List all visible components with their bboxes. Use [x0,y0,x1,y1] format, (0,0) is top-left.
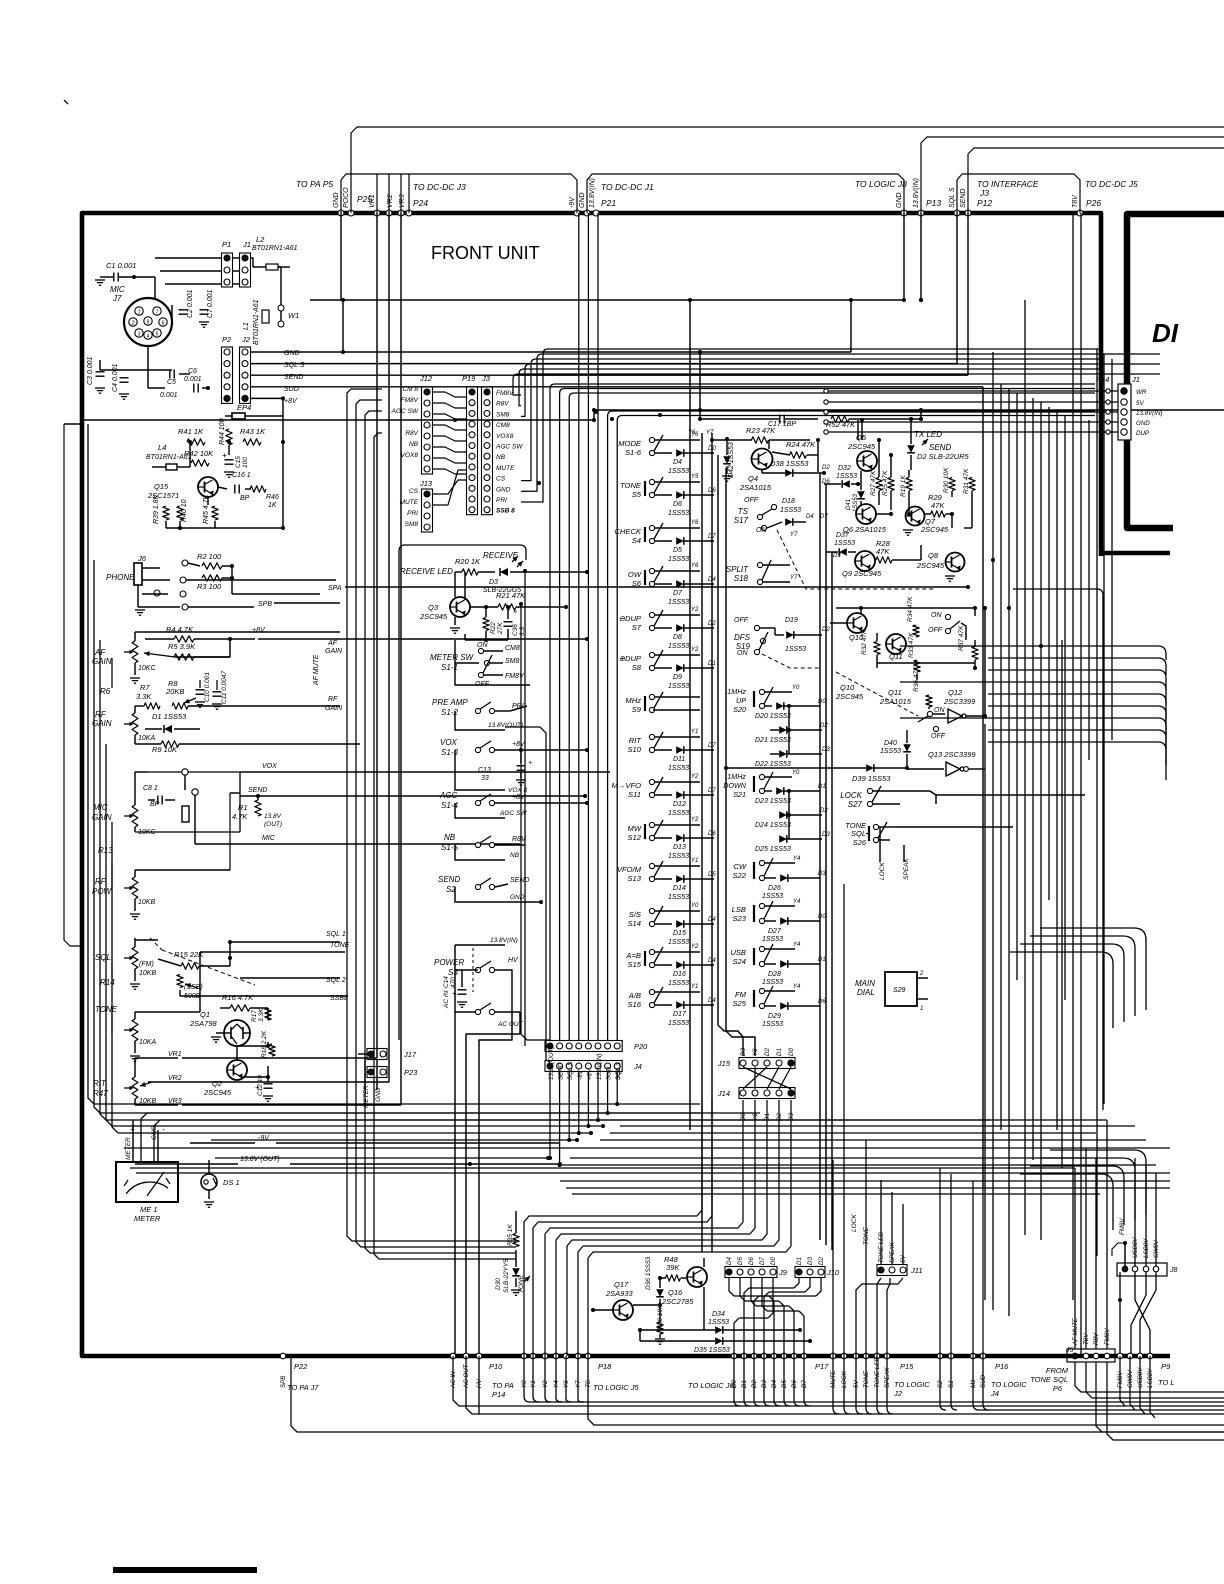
svg-text:CHECK: CHECK [614,527,642,536]
wire 13.8V(IN) to right edge [921,137,1224,213]
svg-text:⊖DUP: ⊖DUP [619,614,642,623]
svg-text:Q15: Q15 [154,482,169,491]
svg-text:D19: D19 [785,617,798,624]
svg-text:TO LOGIC: TO LOGIC [894,1380,930,1389]
svg-text:D12: D12 [673,801,686,808]
svg-text:TO DC-DC J5: TO DC-DC J5 [1085,179,1138,189]
svg-text:L2: L2 [256,235,265,244]
wire J9/J10 to border jog [768,1278,773,1318]
bottom border pin D1 [741,1353,747,1359]
net +8V [224,395,298,405]
svg-text:OFF: OFF [931,733,946,740]
svg-text:OFF: OFF [744,497,759,504]
wire 5V riser [856,1278,903,1356]
switch S14 S/S with diode D15 [627,903,716,946]
wire J4 drop [578,1072,580,1133]
wire J8 feeds [1135,1158,1156,1266]
svg-text:D3: D3 [818,871,826,877]
top border pin [918,210,924,216]
switch SPLIT S18 [726,560,798,585]
wire junction [1039,644,1043,648]
svg-text:D1: D1 [776,1048,783,1056]
label 13.8V(IN) rot [913,178,920,208]
svg-text:5: 5 [156,332,159,338]
svg-text:M→VFO: M→VFO [611,781,641,790]
label VR1 rot [369,194,376,208]
svg-text:+8V: +8V [512,794,526,801]
label 13.8V(IN) rot [589,178,596,208]
connector P2 [222,335,233,403]
svg-text:CM8: CM8 [505,645,520,652]
svg-text:SEND: SEND [558,1062,565,1080]
net SSB8 [180,990,348,1002]
top border pin [348,210,354,216]
svg-text:Q11: Q11 [889,652,903,661]
label TO DC-DC J3 [413,182,466,192]
bottom border pin SPEAK [884,1353,890,1359]
wire q15 links [188,440,251,505]
svg-text:DFS: DFS [734,633,751,642]
svg-text:J4: J4 [990,1389,999,1398]
capacitor C1 0.001 [95,261,155,285]
svg-text:2SC945: 2SC945 [419,612,448,621]
wire rfpow [135,793,240,870]
wire VR1 stub [376,174,378,213]
wire junction [658,413,662,417]
svg-text:SPB: SPB [280,1376,287,1388]
labels Q12 [943,688,976,706]
wire Y bus jog [578,1100,779,1356]
svg-text:2SC945: 2SC945 [203,1088,232,1097]
svg-text:GND: GND [1136,420,1150,427]
capacitor C2 0.001 rot [179,289,195,318]
wire right mid bus [900,645,1158,647]
svg-text:LSB: LSB [732,905,746,914]
bottom border pin Y1 [530,1353,536,1359]
svg-text:SM8: SM8 [496,411,510,418]
svg-text:10KA: 10KA [138,735,155,742]
diode D42 1SS53 rot [722,437,735,481]
switch POWER S3 [434,937,519,1010]
svg-text:DIAL: DIAL [857,988,875,997]
wire junction [688,298,692,302]
svg-text:D21 1SS53: D21 1SS53 [755,737,791,744]
svg-text:D6: D6 [818,999,826,1005]
wire center v525 [524,571,526,1046]
wire central bundle corner [608,411,1095,416]
wire central bundle vertical [568,398,570,1041]
bottom border pin MUTE [830,1353,836,1359]
svg-text:SEND: SEND [929,443,951,452]
svg-text:P21: P21 [601,198,616,208]
label TO DC-DC J5 [1085,179,1138,189]
svg-text:R17: R17 [251,1010,258,1022]
svg-text:NB: NB [444,833,456,842]
transistor Q15 2SC1571 [147,477,218,500]
wire right vertical [1056,411,1058,1130]
connector J3 [481,374,493,515]
svg-text:S/S: S/S [629,910,641,919]
wire harness curve D pin [744,1356,750,1406]
resistor R39 1.8K rot [153,494,169,524]
wire right vertical [1096,349,1098,1256]
label TO PA P14 [492,1381,514,1399]
svg-text:TONE: TONE [620,481,642,490]
resistor R20 1K [455,557,495,575]
svg-text:P2: P2 [222,335,232,344]
label VR3 rot [399,194,406,208]
svg-text:6: 6 [162,321,165,327]
svg-text:J13: J13 [419,479,433,488]
svg-text:GND: GND [579,192,586,208]
svg-text:D4: D4 [673,459,682,466]
svg-text:1SS53: 1SS53 [762,979,783,986]
pot TONE 10KA [95,1005,156,1061]
bottom border pin Y4 [553,1353,559,1359]
svg-text:D2: D2 [822,465,830,471]
wire MUTE riser [832,1160,834,1356]
bottom border pin TONE LED [874,1353,880,1359]
svg-text:Q12: Q12 [948,688,963,697]
bottom border pin TS [585,1353,591,1359]
svg-text:P18: P18 [598,1362,612,1371]
svg-text:C16 1: C16 1 [232,472,251,479]
svg-text:D25 1SS53: D25 1SS53 [755,846,791,853]
svg-text:1SS53: 1SS53 [668,980,689,987]
svg-text:TO PA P5: TO PA P5 [296,179,333,189]
svg-text:NB: NB [510,852,520,859]
svg-text:R24 47K: R24 47K [786,440,816,449]
label GND rot [579,192,586,208]
wire J4 drop [559,1072,561,1165]
svg-text:S1-2: S1-2 [441,708,458,717]
svg-text:D7: D7 [759,1257,766,1265]
svg-text:R46: R46 [266,494,279,501]
svg-text:D2: D2 [820,723,828,729]
switch PRE AMP S1-2 [432,698,527,730]
svg-text:S23: S23 [732,914,746,923]
switch METER SW S1-1 [430,642,530,688]
label P12 [977,198,992,208]
wire J9/J10 to border jog [729,1278,734,1296]
bus matrix D outputs [820,473,832,1250]
connector J4 [545,1061,642,1072]
bottom border pin S2 [937,1353,943,1359]
svg-text:R8V: R8V [496,401,509,408]
svg-text:470: 470 [450,977,457,988]
svg-text:R8V: R8V [405,430,418,437]
svg-text:+: + [255,1083,260,1092]
switch S4 CHECK with diode D5 [614,520,716,563]
svg-text:P17: P17 [815,1362,829,1371]
svg-text:METER SW: METER SW [430,653,475,662]
wire mic leads [171,305,173,319]
switch 1MHz UP S20 [727,685,830,768]
resistor R45 4.7K rot [203,494,218,524]
svg-text:ON: ON [737,650,748,657]
svg-text:1SS53: 1SS53 [668,599,689,606]
switch POWER S3 lower [443,990,524,1356]
svg-text:+8V: +8V [252,627,266,634]
svg-text:LOCK: LOCK [851,1214,858,1232]
wire hook stack lower [1030,1166,1124,1225]
wire harness curve D pin [804,1356,810,1406]
svg-text:4: 4 [147,334,150,340]
svg-text:VR3: VR3 [399,194,406,208]
svg-text:D1 1SS53: D1 1SS53 [152,712,187,721]
svg-text:2SC2785: 2SC2785 [661,1297,694,1306]
svg-text:PRI: PRI [496,497,507,504]
svg-text:C13: C13 [478,767,491,774]
svg-text:GND: GND [284,350,300,357]
connector J2 [240,335,251,403]
svg-text:P19: P19 [462,374,476,383]
wire right vertical [1032,398,1034,1160]
svg-text:WR: WR [1136,389,1147,396]
resistor R2 100 [188,552,234,569]
svg-text:R1: R1 [238,803,248,812]
wire left rail y420 [82,410,596,422]
svg-text:1SS53: 1SS53 [668,556,689,563]
wire harness curve P15 pin [833,1356,839,1414]
svg-text:SSB 8: SSB 8 [496,508,515,515]
svg-text:D7: D7 [820,514,828,520]
svg-text:1SS53: 1SS53 [668,1020,689,1027]
svg-text:47K: 47K [931,501,945,510]
wire s-column [454,640,456,663]
capacitor C7 0.001 rot [199,289,214,327]
svg-text:S16: S16 [627,1000,641,1009]
svg-text:GND: GND [333,192,340,208]
bottom border pin HV [476,1353,482,1359]
svg-text:C14: C14 [443,976,450,988]
bottom border pin LOCK [841,1353,847,1359]
ferrite EP4 [225,398,283,528]
svg-text:+: + [452,989,457,998]
bottom border pin D4 [771,1353,777,1359]
lamp DS1 [201,1160,240,1207]
svg-text:1SS53: 1SS53 [762,936,783,943]
switch S7 ⊖DUP with diode D8 [619,607,717,650]
resistor R5 3.9K [144,639,230,660]
switch S10 RIT with diode D11 [627,729,716,772]
svg-text:2: 2 [919,971,924,977]
svg-text:D0: D0 [788,1048,795,1056]
wire Y bus jog [567,1100,767,1356]
svg-text:Y0: Y0 [792,685,800,691]
connector P1 [222,240,233,287]
svg-text:Y6: Y6 [688,430,696,436]
svg-text:S14: S14 [627,919,641,928]
wire bottom bus [620,1125,1135,1127]
wire to J1 pin [826,421,1118,423]
wire right mid bus [988,669,1158,671]
svg-text:ON: ON [931,612,942,619]
bottom border pin D6 [791,1353,797,1359]
resistor R41 1K [178,427,205,445]
svg-text:S10: S10 [627,745,641,754]
connector J8 [1117,1263,1178,1276]
svg-text:P14: P14 [1096,375,1109,384]
label SQL S rot [949,187,956,208]
wire J9/J10 to border jog [762,1278,767,1311]
svg-text:FM8V: FM8V [505,673,525,680]
svg-text:-9V: -9V [569,196,576,208]
wire harness curve D pin [764,1356,770,1406]
dashed gang s19 [762,654,820,668]
svg-text:VOX8: VOX8 [401,452,419,459]
wire bottom bus [118,1132,591,1134]
wire hook stack lower [1020,1174,1113,1230]
connector J1 [240,240,251,287]
bottom border pin S1 [948,1353,954,1359]
svg-text:D3: D3 [822,747,830,753]
wire right mid bus [988,729,1158,731]
svg-text:D39 1SS53: D39 1SS53 [852,774,891,783]
resistor R36 47K rot [913,666,932,707]
wire central bundle vertical [616,421,618,1042]
switch q12 onoff [918,707,946,740]
svg-text:J12: J12 [419,374,433,383]
svg-text:R6: R6 [100,687,111,696]
wire SUD riser [982,1188,984,1356]
wire VR2 stub [388,174,390,213]
svg-text:AF: AF [327,640,338,647]
svg-text:13.8V (OUT): 13.8V (OUT) [240,1156,280,1163]
connector P14 J1 [1096,375,1140,440]
wire central bundle vertical [549,389,551,1041]
svg-text:1SS53: 1SS53 [834,540,855,547]
svg-text:D16: D16 [673,971,686,978]
svg-text:+8V: +8V [512,741,526,748]
svg-text:P13: P13 [926,198,941,208]
label FM8V J8 [1112,1218,1127,1266]
mic gain box [135,772,240,832]
wire harness line A [530,1401,1224,1403]
svg-text:AC IN: AC IN [443,990,450,1009]
svg-text:DOWN: DOWN [723,781,747,790]
mic connector J7 [110,285,172,346]
wire harness curve Y pin [545,1356,551,1402]
wire to J1 pin [826,390,1118,392]
svg-text:10KC: 10KC [138,829,156,836]
svg-text:13.8V(IN): 13.8V(IN) [913,178,920,208]
svg-text:ON: ON [756,527,767,534]
dashed sql gang [150,938,255,985]
svg-text:J2: J2 [241,335,251,344]
svg-text:VFO/M: VFO/M [617,865,642,874]
svg-text:SQL: SQL [95,953,111,962]
svg-text:R5 3.9K: R5 3.9K [168,642,196,651]
svg-text:7: 7 [156,310,159,316]
wire right vertical [1088,420,1090,760]
label GND rot2 [375,1087,382,1102]
svg-text:2SC1571: 2SC1571 [147,491,179,500]
svg-text:D37: D37 [836,532,850,539]
bus Y6 vertical [701,433,703,1252]
bottom border pin D0 [731,1353,737,1359]
net SPA [186,580,970,592]
wire mic v1 [100,277,172,370]
svg-text:P14: P14 [492,1390,505,1399]
labels Q10 Q11 [835,683,912,706]
svg-text:AF MUTE: AF MUTE [313,654,320,686]
svg-text:RIT: RIT [629,736,643,745]
svg-text:R20 1K: R20 1K [455,557,481,566]
net VR3 w [168,213,401,1105]
resistor R30 10K rot [943,467,955,493]
svg-text:2SA933: 2SA933 [605,1289,634,1298]
front unit border [82,213,1170,1356]
wire right vertical [1040,402,1042,1240]
svg-text:LOCK: LOCK [879,862,886,880]
wire harness curve D pin [774,1356,780,1406]
svg-text:RF: RF [328,696,338,703]
wire q3 base join [465,634,508,642]
wire right vertical [984,724,986,1300]
svg-text:C5: C5 [167,379,176,386]
svg-text:Q2: Q2 [212,1079,223,1088]
svg-text:TO LOGIC J8: TO LOGIC J8 [855,179,907,189]
pot MIC GAIN 10KC [92,772,156,836]
svg-text:FROM: FROM [1046,1366,1069,1375]
connector J13 [419,479,433,532]
svg-text:AGC SW: AGC SW [391,408,419,415]
svg-text:SPB: SPB [258,601,272,608]
wire right vertical [1000,384,1002,1130]
svg-text:CM8: CM8 [496,422,510,429]
wire Y bus jog [556,1100,755,1356]
svg-text:Y1: Y1 [691,858,698,864]
svg-text:J9: J9 [778,1268,788,1277]
bottom border pin CW8V [1127,1353,1133,1359]
svg-text:D3: D3 [822,832,830,838]
svg-text:GAIN: GAIN [92,813,112,822]
svg-text:2SA798: 2SA798 [189,1019,218,1028]
transistor Q9 2SC945 [842,551,882,578]
svg-text:SEND: SEND [960,189,967,208]
net D2 D6 labels [822,465,830,485]
wire bottom bus [130,1167,1075,1169]
svg-text:P15: P15 [900,1362,914,1371]
svg-text:L1: L1 [243,322,250,330]
switch beep [928,612,966,640]
wire C5G [148,370,208,388]
svg-text:J6: J6 [137,554,147,563]
wire v690 [690,300,700,1130]
diode D39 1SS53 [724,764,944,783]
svg-text:S5: S5 [632,490,642,499]
svg-text:1SS53: 1SS53 [668,510,689,517]
page tick mark top-left [64,100,68,104]
svg-text:W1: W1 [288,311,299,320]
net +8V [252,627,589,641]
bottom border pin D3 [761,1353,767,1359]
svg-text:MW: MW [628,824,642,833]
svg-text:D3: D3 [807,1257,814,1265]
resistor R50 10K rot [655,1304,665,1344]
wire outside left [64,424,82,946]
svg-text:1SS53: 1SS53 [668,894,689,901]
resistor R17 3.3K rot [251,1008,271,1022]
top border pin [338,210,344,216]
svg-text:R32 47K: R32 47K [861,629,868,655]
bottom border pin Y7 [575,1353,581,1359]
inductor L2 BT01RN1-A61 [252,235,298,270]
top border pin [901,210,907,216]
svg-text:TO L: TO L [1158,1378,1175,1387]
bus matrix out a [718,455,743,1056]
